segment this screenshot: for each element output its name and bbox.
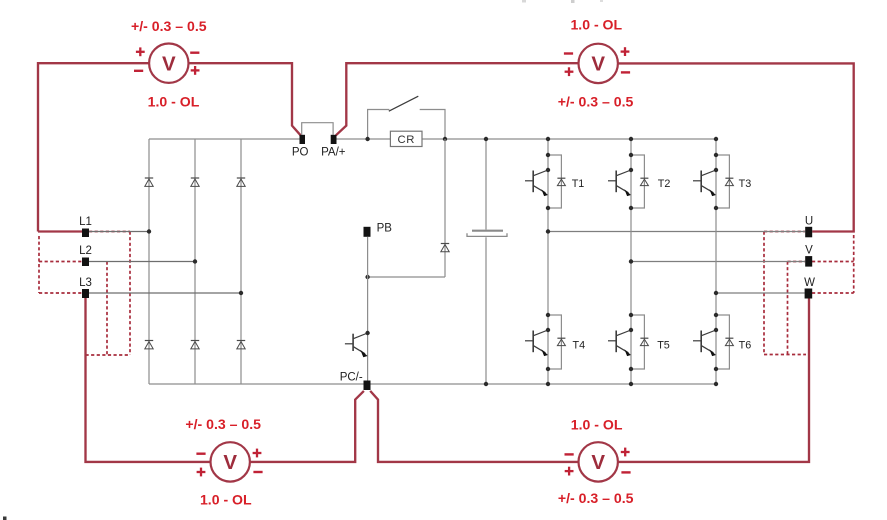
transistor T1 IGBT symbol <box>525 170 548 196</box>
svg-text:T3: T3 <box>739 178 752 190</box>
junction node bypass right <box>443 137 447 141</box>
wire L3 row <box>89 292 241 294</box>
svg-text:+/- 0.3 – 0.5: +/- 0.3 – 0.5 <box>558 490 634 506</box>
meter range label top-right lower <box>558 94 634 110</box>
junction dots T5 <box>629 313 633 371</box>
label L1 <box>79 216 92 228</box>
voltmeter top-left <box>149 44 188 83</box>
label T3 <box>739 178 752 190</box>
wire red bottom-right meter to W <box>618 298 809 462</box>
rectifier diode top 1 <box>145 178 153 186</box>
dashed probe loop left L1 <box>89 232 130 356</box>
wire rectifier leg 3 <box>240 139 242 384</box>
junction nodes top bus <box>546 137 718 141</box>
wire W row <box>716 292 805 294</box>
flyback diode of T4 <box>557 338 565 345</box>
terminal V <box>805 256 812 267</box>
wire red PC to bottom-right meter <box>370 391 578 462</box>
terminal L2 <box>82 258 89 267</box>
label PA/+ <box>321 147 346 159</box>
label T1 <box>572 178 585 190</box>
wire rectifier leg 1 <box>148 139 150 384</box>
svg-text:T6: T6 <box>739 339 752 351</box>
cropped text remnant top <box>522 0 603 3</box>
transistor T2 IGBT symbol <box>608 170 631 196</box>
terminal W <box>805 289 813 299</box>
transistor T2 diode branch <box>631 155 644 208</box>
svg-text:1.0 - OL: 1.0 - OL <box>570 17 622 33</box>
svg-text:T5: T5 <box>657 339 670 351</box>
wire red top-right loop to U <box>618 63 854 231</box>
dashed probe loop right U <box>764 232 806 355</box>
wire capacitor leg bottom <box>485 237 487 384</box>
junction nodes bottom bus <box>546 382 718 386</box>
junction dots T1 <box>546 153 550 210</box>
dashed probe loop left inner vertical <box>106 262 108 356</box>
bypass contact blade <box>389 96 419 111</box>
junction node L1-leg1 <box>147 229 151 233</box>
svg-text:PO: PO <box>292 147 309 159</box>
svg-text:+/- 0.3 – 0.5: +/- 0.3 – 0.5 <box>131 18 207 34</box>
wire inverter leg T3/T6 <box>715 139 717 384</box>
transistor T5 diode branch <box>631 315 644 369</box>
label T4 <box>573 339 586 351</box>
capacitor C1 <box>467 231 507 237</box>
wire DC bus top right segment <box>337 138 717 140</box>
voltmeter bottom-left <box>211 442 250 481</box>
flyback diode of T3 <box>725 178 733 185</box>
junction node L3-leg3 <box>239 291 243 295</box>
transistor T3 IGBT symbol <box>693 170 716 196</box>
svg-text:PB: PB <box>377 223 393 235</box>
label V <box>805 245 813 257</box>
wire DC bus top left segment <box>149 138 300 140</box>
page mark bottom-left <box>3 517 7 520</box>
label W <box>804 277 815 289</box>
svg-text:1.0 - OL: 1.0 - OL <box>571 417 623 433</box>
svg-text:PC/-: PC/- <box>340 371 363 383</box>
label L2 <box>79 245 92 257</box>
junction dots T3 <box>714 153 718 210</box>
label PC/- <box>340 371 363 383</box>
rectifier diode top 3 <box>237 178 245 186</box>
svg-text:L3: L3 <box>79 277 92 289</box>
wire red PA to top-right meter <box>336 63 579 135</box>
svg-text:V: V <box>223 451 237 474</box>
transistor T3 diode branch <box>716 155 729 208</box>
junction node cap top <box>484 137 488 141</box>
meter range label top-left upper <box>131 18 207 34</box>
rectifier diode top 2 <box>191 178 199 186</box>
relay box CR <box>390 131 422 146</box>
rectifier diode bottom 1 <box>145 341 153 349</box>
label U <box>805 216 813 228</box>
terminal L1 <box>82 229 89 238</box>
flyback diode of T6 <box>725 338 733 345</box>
svg-text:PA/+: PA/+ <box>321 147 346 159</box>
brake transistor symbol <box>345 333 368 357</box>
terminal L3 <box>82 289 89 298</box>
svg-text:V: V <box>162 53 176 76</box>
junction dots T6 <box>714 313 718 371</box>
terminal PO <box>300 135 306 144</box>
wire red L3 down to bottom-left meter <box>86 298 211 462</box>
label T6 <box>739 339 752 351</box>
transistor T6 diode branch <box>716 315 729 369</box>
transistor T4 diode branch <box>548 315 561 369</box>
label PB <box>377 223 393 235</box>
dashed probe loop left L2-L3 <box>39 236 82 293</box>
junction node cap bottom <box>484 382 488 386</box>
wire L2 row <box>89 261 195 263</box>
label T2 <box>658 178 671 190</box>
wire DC bus bottom <box>149 383 716 385</box>
svg-text:+/- 0.3 – 0.5: +/- 0.3 – 0.5 <box>558 94 634 110</box>
terminal PA/+ <box>331 135 337 144</box>
junction node U tap <box>546 229 550 233</box>
svg-text:CR: CR <box>398 134 416 146</box>
voltmeter bottom-right polarity signs <box>565 448 631 476</box>
wire inverter leg T1/T4 <box>547 139 549 384</box>
junction node PB branch <box>365 275 369 279</box>
braking diode <box>441 244 449 252</box>
voltmeter bottom-right <box>579 442 618 481</box>
meter range label top-right upper <box>570 17 622 33</box>
svg-text:U: U <box>805 216 813 228</box>
svg-text:L1: L1 <box>79 216 92 228</box>
jumper PO-PA/+ <box>302 123 333 135</box>
label CR <box>398 134 416 146</box>
junction node W tap <box>714 291 718 295</box>
svg-text:T4: T4 <box>573 339 586 351</box>
terminal U <box>805 227 812 238</box>
dashed probe loop right V <box>788 262 806 355</box>
wire inverter leg T2/T5 <box>630 139 632 384</box>
svg-text:T1: T1 <box>572 178 585 190</box>
label T5 <box>657 339 670 351</box>
transistor T5 IGBT symbol <box>608 330 631 356</box>
junction node L2-leg2 <box>193 259 197 263</box>
svg-text:V: V <box>805 245 813 257</box>
dashed probe loop left bottom <box>86 354 131 356</box>
junction dots T2 <box>629 153 633 210</box>
label PO <box>292 147 309 159</box>
junction node V tap <box>629 259 633 263</box>
bypass contact branch <box>368 110 445 140</box>
svg-text:V: V <box>591 53 605 76</box>
wire capacitor leg top <box>485 139 487 230</box>
junction dots T4 <box>546 313 550 371</box>
wire U row <box>548 231 805 233</box>
wire L1 row <box>89 231 149 233</box>
svg-text:+/- 0.3 – 0.5: +/- 0.3 – 0.5 <box>185 416 261 432</box>
meter range label bottom-right lower <box>558 490 634 506</box>
wire rectifier leg 2 <box>194 139 196 384</box>
rectifier diode bottom 2 <box>191 341 199 349</box>
transistor T4 IGBT symbol <box>525 330 548 356</box>
meter range label bottom-left lower <box>200 491 252 507</box>
meter range label bottom-left upper <box>185 416 261 432</box>
terminal PB <box>364 227 371 237</box>
voltmeter top-right <box>579 44 618 83</box>
junction node bypass left <box>365 137 369 141</box>
wire PB leg <box>367 237 369 381</box>
svg-text:1.0 - OL: 1.0 - OL <box>200 491 252 507</box>
wire red bottom-left meter to PC <box>250 391 364 462</box>
rectifier diode bottom 3 <box>237 341 245 349</box>
wire braking diode leg <box>368 139 445 277</box>
svg-text:1.0 - OL: 1.0 - OL <box>148 94 200 110</box>
voltmeter top-left polarity signs <box>134 47 200 74</box>
meter range label top-left lower <box>148 94 200 110</box>
junction node brake collector <box>365 331 369 335</box>
terminal PC/- <box>364 381 371 391</box>
label L3 <box>79 277 92 289</box>
transistor T1 diode branch <box>548 155 561 208</box>
svg-text:T2: T2 <box>658 178 671 190</box>
wire V row <box>631 261 805 263</box>
voltmeter top-right polarity signs <box>564 47 630 76</box>
flyback diode of T5 <box>640 338 648 345</box>
wire red top-left loop <box>38 63 149 231</box>
svg-text:W: W <box>804 277 815 289</box>
svg-text:L2: L2 <box>79 245 92 257</box>
dashed probe loop right V-W outer <box>812 235 854 293</box>
voltmeter bottom-left polarity signs <box>196 449 262 477</box>
wire red top-left to PO <box>189 63 301 135</box>
meter range label bottom-right upper <box>571 417 623 433</box>
wire red left to L1 <box>38 230 82 232</box>
svg-text:V: V <box>591 451 605 474</box>
transistor T6 IGBT symbol <box>693 330 716 356</box>
flyback diode of T1 <box>557 178 565 185</box>
flyback diode of T2 <box>640 178 648 185</box>
